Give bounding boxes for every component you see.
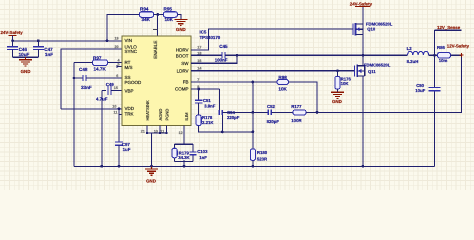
svg-text:5: 5	[118, 62, 120, 66]
svg-text:VBP: VBP	[125, 88, 134, 93]
wire R86 to 12V-Safety output	[451, 54, 462, 56]
node bus R180	[252, 165, 255, 168]
svg-text:11: 11	[114, 110, 118, 114]
wire LDRV to Q11 gate	[191, 70, 355, 72]
node L2/C50/sense	[433, 54, 436, 57]
wire SW pin	[191, 55, 237, 63]
svg-text:12V_Sense: 12V_Sense	[437, 25, 461, 30]
svg-text:C51: C51	[203, 98, 211, 103]
node 24V/C47	[37, 39, 40, 42]
pin number 1 tick (ENABLE)	[153, 29, 158, 31]
IC left pin numbers	[112, 37, 120, 115]
svg-text:AGND: AGND	[158, 109, 163, 121]
ground GND (R95)	[174, 19, 187, 31]
net label 12V-Safety	[447, 44, 470, 58]
svg-text:12V-Safety: 12V-Safety	[447, 44, 470, 49]
svg-text:1uF: 1uF	[123, 147, 131, 152]
capacitor C51	[195, 89, 216, 115]
svg-text:VDD: VDD	[125, 106, 135, 111]
svg-text:24V-Safety: 24V-Safety	[1, 30, 24, 35]
resistor R94	[140, 7, 154, 23]
node C94 drop	[221, 131, 224, 134]
svg-text:GND: GND	[176, 27, 186, 32]
svg-text:FB: FB	[183, 80, 189, 85]
svg-text:C103: C103	[197, 149, 208, 154]
wire HEATSINK/AGND/PGND to ground	[147, 126, 167, 167]
svg-text:19: 19	[115, 37, 119, 41]
wire R177 to output sense	[306, 55, 461, 112]
svg-text:8.2uH: 8.2uH	[407, 59, 419, 64]
capacitor C48 (SS)	[74, 67, 122, 90]
svg-text:2.21K: 2.21K	[202, 120, 214, 125]
wire R180 to bus	[252, 160, 254, 166]
svg-text:820pF: 820pF	[267, 119, 280, 124]
resistor R98	[277, 75, 289, 91]
transistor Q10 FDMC86520L	[353, 6, 393, 55]
svg-text:100nF: 100nF	[215, 57, 228, 62]
svg-text:R86: R86	[437, 45, 445, 50]
svg-text:ENABLE: ENABLE	[153, 41, 158, 59]
node BOOT/SW	[236, 54, 239, 57]
ground GND (main bus)	[145, 166, 158, 183]
ground GND (R176)	[331, 92, 344, 104]
svg-text:10K: 10K	[278, 86, 287, 91]
capacitor C103	[190, 149, 208, 160]
node bus ILIM	[183, 165, 186, 168]
resistor R177	[291, 104, 306, 123]
wire HDRV to Q10 gate	[191, 29, 353, 50]
node C48 tap	[73, 77, 76, 80]
capacitor C94	[219, 110, 239, 120]
wire FB column vertical	[252, 82, 254, 149]
svg-text:SYNC: SYNC	[125, 49, 138, 54]
capacitor C50	[415, 55, 440, 93]
svg-text:Q11: Q11	[368, 69, 376, 74]
svg-text:20: 20	[115, 45, 119, 49]
svg-text:COMP: COMP	[175, 87, 189, 92]
svg-text:14.7K: 14.7K	[94, 66, 107, 71]
resistor R176	[335, 71, 352, 93]
svg-text:1nF: 1nF	[45, 52, 53, 57]
node FB column mid	[252, 111, 255, 114]
svg-text:TPS40170: TPS40170	[200, 35, 221, 40]
svg-text:R95: R95	[164, 7, 173, 12]
svg-text:C52: C52	[267, 104, 275, 109]
wire R97/C48 node down to ground bus	[73, 63, 75, 167]
wire ENABLE	[157, 15, 159, 37]
net label 12V_Sense	[435, 25, 462, 55]
svg-text:IC5: IC5	[200, 29, 207, 34]
svg-text:M/S: M/S	[125, 65, 133, 70]
node R94/R95/ENABLE	[156, 13, 159, 16]
svg-text:PGOOD: PGOOD	[125, 80, 143, 85]
node 24V/C46	[11, 39, 14, 42]
svg-text:R180: R180	[257, 150, 268, 155]
wire BOOT with C45	[191, 54, 222, 56]
svg-text:HEATSINK: HEATSINK	[145, 100, 150, 120]
capacitor C45	[215, 44, 228, 62]
capacitor C49 (VBP)	[96, 82, 122, 166]
svg-text:C45: C45	[219, 44, 228, 49]
wire R95 to ground	[177, 15, 180, 20]
node R176 tap	[336, 69, 339, 72]
wire BOOT/SW node to switch node	[225, 54, 363, 56]
wire ILIM network rails	[175, 144, 194, 166]
node R177/output join	[316, 111, 319, 114]
svg-text:R94: R94	[140, 7, 149, 12]
svg-text:21: 21	[141, 129, 145, 133]
svg-text:VIN: VIN	[125, 38, 133, 43]
svg-text:R98: R98	[278, 75, 287, 80]
svg-text:R177: R177	[291, 104, 302, 109]
wire 24V rail to VIN	[13, 40, 122, 42]
net label 24V-Safety (input rail)	[1, 30, 24, 41]
resistor R178	[196, 115, 214, 126]
svg-text:7: 7	[197, 78, 199, 82]
IC bottom pin numbers	[141, 129, 183, 135]
svg-text:TRK: TRK	[125, 112, 134, 117]
wire R178 bottom to FB column	[199, 126, 253, 132]
wire ILIM to network	[183, 126, 185, 145]
svg-text:PGND: PGND	[165, 109, 170, 121]
node ILIM bottom rail	[183, 160, 185, 162]
IC vertical pin names	[145, 41, 189, 121]
IC right pin names	[175, 48, 189, 92]
wire TRK tie	[119, 109, 122, 115]
svg-text:3.9nF: 3.9nF	[204, 104, 216, 109]
wire FB pin	[191, 81, 277, 83]
svg-text:R97: R97	[93, 56, 102, 61]
wire R98 to output sense column	[289, 82, 317, 112]
svg-text:220pF: 220pF	[227, 115, 240, 120]
node VDD/TRK tie	[118, 107, 121, 110]
node C51 tap	[197, 88, 200, 91]
svg-text:LDRV: LDRV	[177, 68, 189, 73]
svg-text:10: 10	[112, 105, 116, 109]
svg-text:6: 6	[116, 74, 118, 78]
resistor R179	[172, 148, 191, 160]
svg-text:10K: 10K	[165, 17, 174, 22]
IC IC5 TPS40170	[122, 29, 221, 125]
wire C46-C47 bottom link	[13, 56, 39, 58]
svg-text:ILIM: ILIM	[184, 112, 189, 121]
svg-text:GND: GND	[332, 99, 342, 104]
svg-text:24V-Safety: 24V-Safety	[350, 1, 373, 6]
svg-text:12: 12	[179, 131, 183, 135]
resistor R180	[250, 149, 268, 161]
wire C52 to R177	[271, 111, 293, 113]
capacitor C97	[115, 115, 131, 167]
pin M/S no-connect stub	[117, 65, 122, 68]
wire ground bus	[74, 91, 435, 167]
svg-text:1nF: 1nF	[199, 155, 207, 160]
node bus C97	[118, 165, 121, 168]
wire 24V up to R94	[107, 15, 140, 41]
svg-text:10uF: 10uF	[19, 52, 30, 57]
svg-text:10K: 10K	[341, 81, 350, 86]
capacitor C52	[267, 104, 280, 124]
node 24V/R94 branch	[106, 39, 109, 42]
svg-text:100R: 100R	[291, 118, 302, 123]
svg-text:34K: 34K	[142, 17, 151, 22]
svg-text:L2: L2	[407, 46, 413, 51]
svg-text:15: 15	[114, 86, 118, 90]
node FB column lower	[252, 131, 255, 134]
svg-text:Q10: Q10	[367, 27, 376, 32]
resistor R97	[74, 56, 122, 72]
node bus Q11 source	[362, 165, 365, 168]
node AGND join	[146, 132, 148, 134]
transistor Q11 FDMC86520L	[355, 55, 391, 166]
capacitor C46	[7, 41, 29, 57]
svg-text:10m: 10m	[439, 58, 448, 63]
svg-text:4.7uF: 4.7uF	[96, 97, 108, 102]
wire COMP corner to C94	[218, 89, 220, 112]
svg-text:SW: SW	[181, 61, 189, 66]
svg-text:33nF: 33nF	[81, 85, 92, 90]
wire C94 to C52	[222, 111, 268, 113]
svg-text:34.3K: 34.3K	[178, 155, 190, 160]
wire UVLO/SYNC to VDD rail	[61, 49, 122, 109]
node FB column	[252, 81, 255, 84]
node bus IC gnd	[150, 165, 153, 168]
IC right pin numbers	[197, 45, 202, 89]
capacitor C47	[33, 41, 53, 57]
wire COMP pin	[191, 88, 219, 90]
ground GND (input caps)	[19, 57, 32, 74]
node SW junction	[362, 54, 365, 57]
wire R94-R95 junction	[154, 14, 164, 16]
svg-text:GND: GND	[146, 178, 156, 183]
svg-text:C48: C48	[79, 67, 88, 72]
svg-text:GND: GND	[21, 69, 31, 74]
resistor R86	[437, 45, 451, 63]
svg-text:FDMC86520L: FDMC86520L	[364, 63, 391, 68]
svg-text:16: 16	[197, 59, 201, 63]
svg-text:BOOT: BOOT	[176, 53, 189, 58]
resistor R95	[163, 7, 177, 23]
wire C94 drop	[221, 115, 223, 132]
svg-text:HDRV: HDRV	[176, 48, 189, 53]
svg-text:10uF: 10uF	[415, 88, 425, 93]
IC left pin names	[125, 38, 143, 117]
svg-text:523R: 523R	[257, 156, 268, 161]
node bus C49	[100, 165, 103, 168]
inductor L2	[363, 46, 438, 64]
svg-text:17: 17	[197, 45, 201, 49]
node ILIM top rail	[183, 143, 185, 145]
